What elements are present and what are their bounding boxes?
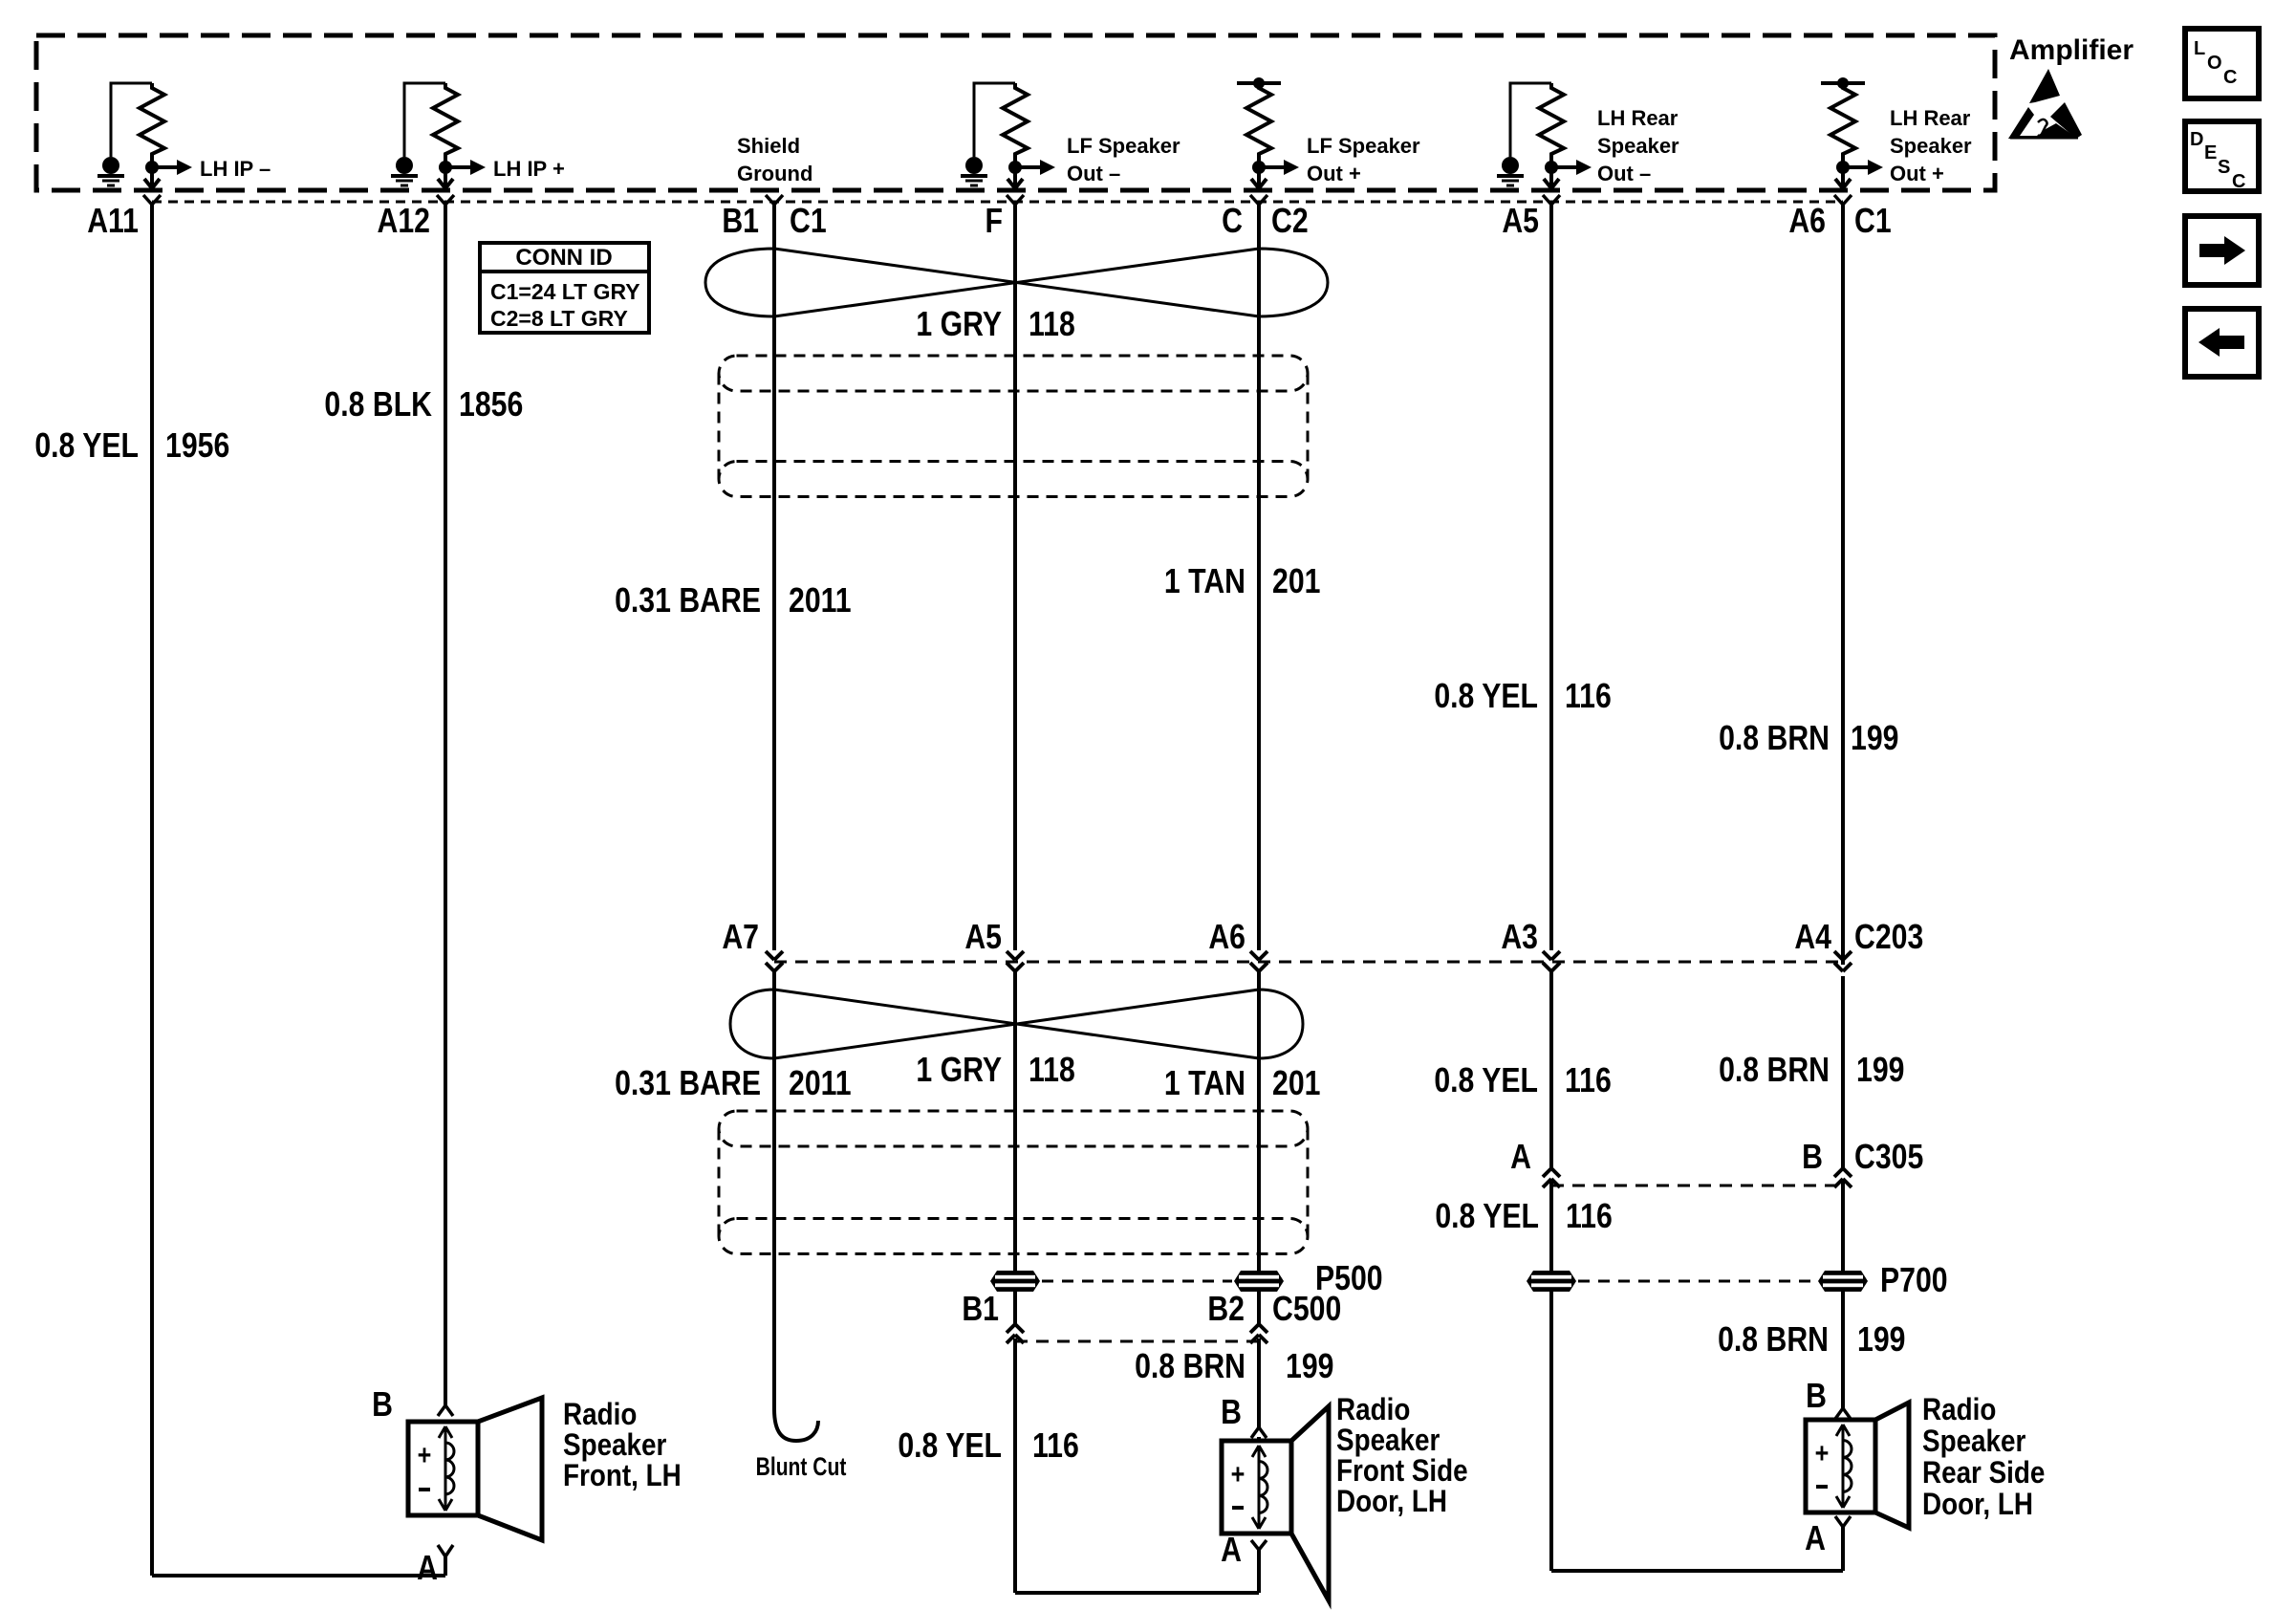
svg-text:0.8 YEL: 0.8 YEL [1435, 1198, 1539, 1236]
svg-text:A3: A3 [1501, 919, 1538, 957]
svg-text:LH IP –: LH IP – [200, 157, 271, 181]
svg-text:1 TAN: 1 TAN [1164, 563, 1245, 601]
svg-text:201: 201 [1272, 1065, 1320, 1103]
svg-text:0.8 BRN: 0.8 BRN [1719, 720, 1830, 758]
svg-text:Radio: Radio [1922, 1393, 1996, 1426]
svg-text:Out +: Out + [1307, 162, 1361, 185]
svg-text:B2: B2 [1207, 1291, 1245, 1329]
svg-text:S: S [2218, 157, 2230, 178]
svg-text:2011: 2011 [789, 582, 852, 620]
svg-text:0.8 BRN: 0.8 BRN [1719, 1052, 1830, 1090]
svg-text:C1=24 LT GRY: C1=24 LT GRY [490, 279, 640, 304]
svg-text:Blunt Cut: Blunt Cut [756, 1453, 847, 1482]
svg-text:Out –: Out – [1597, 162, 1651, 185]
svg-text:C: C [2223, 67, 2237, 88]
svg-text:Door, LH: Door, LH [1336, 1485, 1447, 1518]
svg-text:A12: A12 [378, 203, 430, 241]
svg-text:199: 199 [1857, 1321, 1905, 1360]
svg-text:Shield: Shield [737, 134, 800, 158]
svg-text:0.8 YEL: 0.8 YEL [1434, 678, 1538, 716]
svg-text:LH IP +: LH IP + [493, 157, 565, 181]
svg-text:E: E [2204, 142, 2217, 163]
svg-text:LH Rear: LH Rear [1597, 106, 1679, 130]
svg-text:A: A [1805, 1520, 1826, 1558]
svg-text:P700: P700 [1880, 1262, 1948, 1300]
svg-text:Amplifier: Amplifier [2009, 34, 2134, 66]
svg-text:199: 199 [1286, 1348, 1333, 1386]
svg-text:+: + [1815, 1437, 1830, 1469]
svg-text:LF Speaker: LF Speaker [1307, 134, 1420, 158]
svg-text:116: 116 [1566, 1198, 1613, 1236]
svg-text:B1: B1 [722, 203, 759, 241]
svg-text:F: F [986, 203, 1003, 241]
svg-text:Out +: Out + [1890, 162, 1944, 185]
svg-text:Out –: Out – [1067, 162, 1120, 185]
svg-text:Front Side: Front Side [1336, 1454, 1468, 1488]
svg-text:1 GRY: 1 GRY [916, 306, 1002, 344]
svg-text:1 TAN: 1 TAN [1164, 1065, 1245, 1103]
svg-text:C1: C1 [1854, 203, 1892, 241]
svg-text:Speaker: Speaker [1336, 1424, 1440, 1457]
svg-text:A: A [1221, 1532, 1242, 1570]
svg-text:Speaker: Speaker [1922, 1425, 2026, 1458]
svg-text:0.8 YEL: 0.8 YEL [1434, 1062, 1538, 1100]
svg-text:A11: A11 [87, 203, 139, 241]
svg-text:Speaker: Speaker [563, 1428, 667, 1462]
svg-text:Door, LH: Door, LH [1922, 1488, 2033, 1521]
svg-text:199: 199 [1856, 1052, 1904, 1090]
svg-text:A6: A6 [1208, 919, 1245, 957]
svg-text:B: B [1802, 1139, 1823, 1177]
svg-text:D: D [2190, 129, 2203, 150]
svg-text:0.8 YEL: 0.8 YEL [898, 1427, 1002, 1466]
svg-text:A: A [417, 1550, 438, 1588]
svg-text:+: + [1231, 1458, 1245, 1490]
svg-text:A: A [1510, 1139, 1531, 1177]
svg-text:L: L [2194, 38, 2205, 59]
svg-text:A5: A5 [964, 919, 1002, 957]
svg-text:Ground: Ground [737, 162, 812, 185]
svg-text:Speaker: Speaker [1890, 134, 1972, 158]
svg-text:0.8 BLK: 0.8 BLK [324, 386, 432, 424]
svg-text:A4: A4 [1794, 919, 1831, 957]
svg-text:1856: 1856 [459, 386, 523, 424]
svg-text:C500: C500 [1272, 1291, 1341, 1329]
svg-text:LH Rear: LH Rear [1890, 106, 1971, 130]
svg-text:O: O [2207, 53, 2222, 74]
svg-text:116: 116 [1565, 678, 1612, 716]
svg-text:A6: A6 [1788, 203, 1826, 241]
svg-text:B: B [1221, 1394, 1242, 1432]
svg-text:LF Speaker: LF Speaker [1067, 134, 1180, 158]
svg-text:Speaker: Speaker [1597, 134, 1679, 158]
svg-text:Radio: Radio [1336, 1393, 1410, 1426]
svg-text:0.31 BARE: 0.31 BARE [615, 582, 761, 620]
svg-text:C1: C1 [790, 203, 827, 241]
svg-text:Rear Side: Rear Side [1922, 1456, 2045, 1490]
svg-text:2011: 2011 [789, 1065, 852, 1103]
svg-text:B: B [372, 1386, 393, 1425]
svg-text:0.8 BRN: 0.8 BRN [1718, 1321, 1829, 1360]
svg-text:C: C [2232, 171, 2245, 192]
svg-text:C2=8 LT GRY: C2=8 LT GRY [490, 306, 628, 331]
svg-text:1956: 1956 [165, 427, 229, 466]
svg-text:+: + [418, 1439, 432, 1471]
svg-text:0.31 BARE: 0.31 BARE [615, 1065, 761, 1103]
svg-text:C305: C305 [1854, 1139, 1923, 1177]
svg-text:1 GRY: 1 GRY [916, 1052, 1002, 1090]
svg-text:Front, LH: Front, LH [563, 1459, 682, 1492]
svg-text:CONN ID: CONN ID [515, 245, 612, 271]
svg-text:201: 201 [1272, 563, 1320, 601]
svg-text:118: 118 [1029, 306, 1075, 344]
svg-text:118: 118 [1029, 1052, 1075, 1090]
svg-text:B1: B1 [962, 1291, 999, 1329]
svg-text:0.8 BRN: 0.8 BRN [1135, 1348, 1245, 1386]
svg-text:116: 116 [1565, 1062, 1612, 1100]
svg-text:199: 199 [1851, 720, 1898, 758]
svg-text:Radio: Radio [563, 1398, 637, 1431]
svg-text:C2: C2 [1271, 203, 1309, 241]
svg-text:116: 116 [1032, 1427, 1079, 1466]
svg-text:0.8 YEL: 0.8 YEL [34, 427, 139, 466]
svg-text:C203: C203 [1854, 919, 1923, 957]
svg-text:A7: A7 [722, 919, 759, 957]
svg-text:B: B [1806, 1378, 1827, 1416]
svg-text:A5: A5 [1502, 203, 1539, 241]
svg-text:C: C [1222, 203, 1243, 241]
